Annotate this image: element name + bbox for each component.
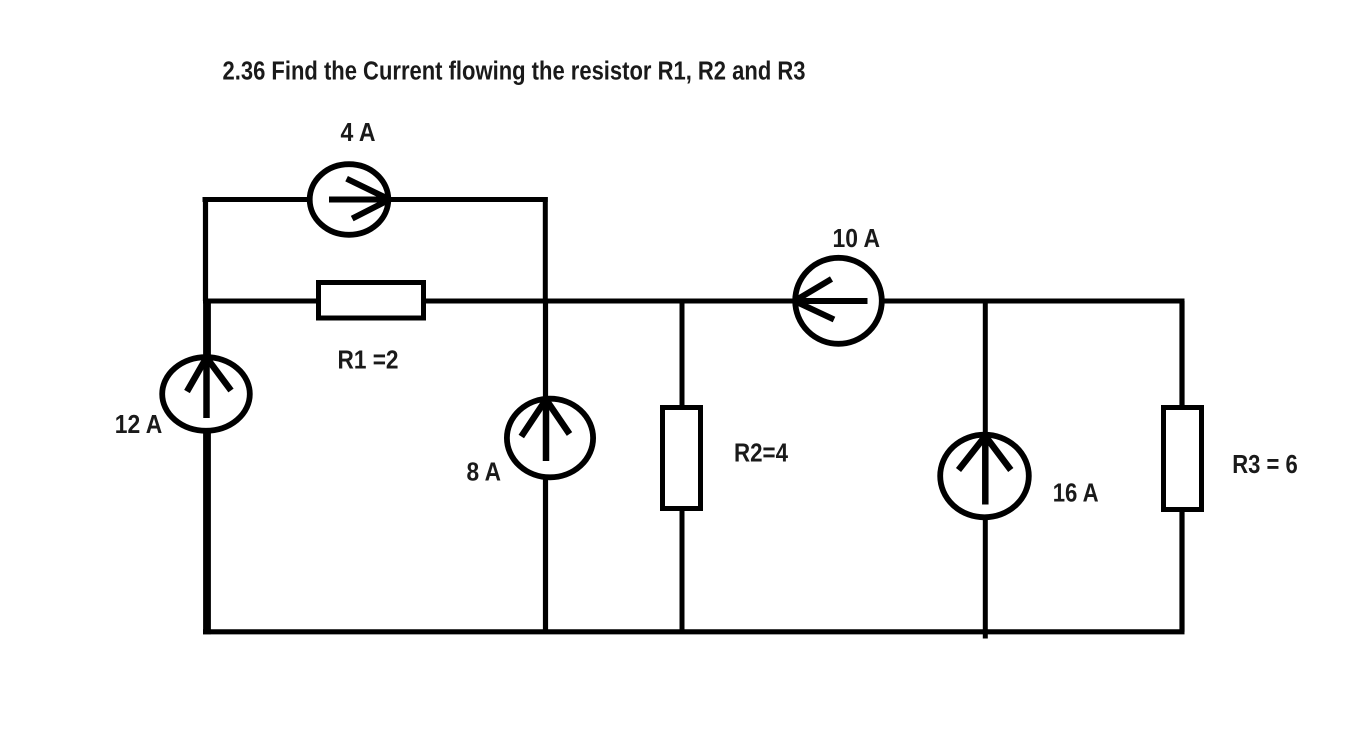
resistor R3 (1164, 408, 1202, 510)
current source I4 10A (circle) (795, 258, 882, 344)
current source I2 12A (circle) (162, 357, 250, 431)
current source I2 12A (arrow pointing up) (187, 356, 231, 418)
wire: left vertical lower segment (through 12A source) (203, 299, 211, 635)
svg-text:R1 =2: R1 =2 (338, 346, 399, 374)
wire: R3 branch vertical (right side) (1179, 301, 1184, 632)
wire: top horizontal (node A to node B) (203, 197, 548, 202)
wire: 8A branch vertical (543, 301, 548, 632)
current source I4 10A (arrow pointing left) (795, 279, 868, 320)
wire: 16A branch vertical (983, 301, 988, 639)
svg-text:8 A: 8 A (467, 458, 502, 486)
svg-text:R3 = 6: R3 = 6 (1232, 451, 1298, 479)
svg-text:10 A: 10 A (833, 225, 881, 253)
wire: vertical from top wire to middle bus at node B (543, 197, 548, 301)
svg-text:12 A: 12 A (115, 411, 163, 439)
current source I3 8A (arrow pointing up) (521, 398, 569, 461)
current source I1 4A (circle) (310, 164, 389, 235)
current source I3 8A (circle) (507, 399, 593, 478)
current source I5 16A (circle) (940, 435, 1029, 518)
wire: bottom horizontal return (203, 629, 1185, 634)
current source I5 16A (arrow pointing up) (959, 435, 1011, 505)
wire: middle horizontal bus (203, 299, 1185, 304)
svg-text:R2=4: R2=4 (734, 440, 789, 468)
svg-text:4 A: 4 A (341, 119, 376, 147)
svg-text:2.36 Find the Current flowing: 2.36 Find the Current flowing the resist… (223, 58, 806, 86)
wire: R2 branch vertical (680, 301, 685, 632)
resistor R2 (663, 408, 701, 509)
wire: left vertical upper segment (203, 197, 208, 301)
current source I1 4A (arrow pointing right) (329, 179, 390, 219)
svg-text:16 A: 16 A (1053, 480, 1099, 508)
resistor R1 (319, 283, 424, 319)
